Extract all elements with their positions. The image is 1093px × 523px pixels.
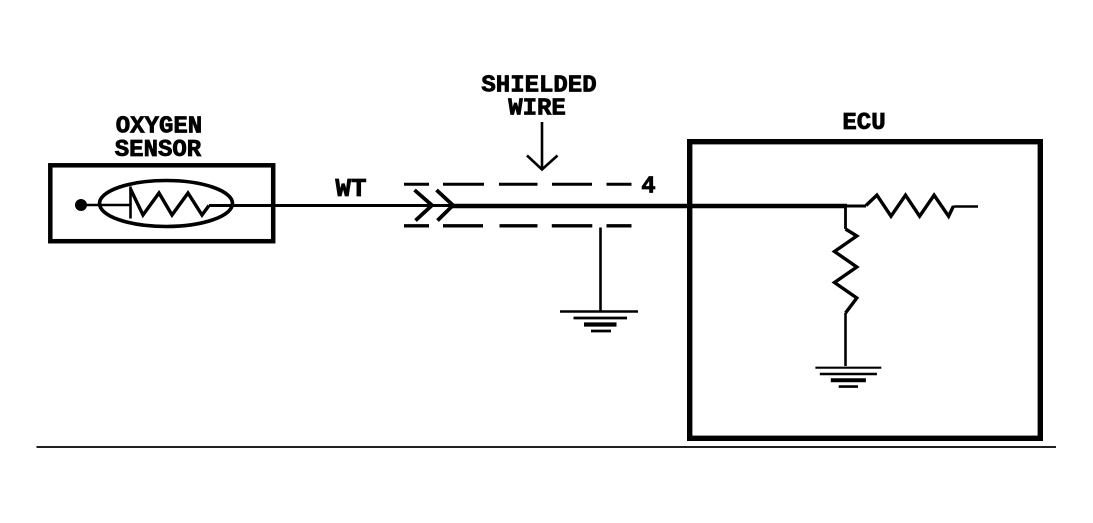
- connector chevron 2: [437, 190, 454, 221]
- sensor resistor zigzag: [131, 189, 210, 215]
- arrow pointing to shield: [527, 122, 558, 170]
- oxygen sensor element ellipse: [100, 181, 233, 227]
- node: sensor terminal dot: [75, 199, 87, 211]
- ECU box: [690, 142, 1041, 439]
- label "OXYGEN SENSOR": [115, 114, 202, 165]
- bottom border line: [37, 446, 1057, 448]
- oxygen sensor box: [50, 165, 273, 241]
- svg-text:4: 4: [641, 174, 655, 201]
- wire: junction to horizontal resistor: [846, 205, 867, 208]
- sensor electrode bar: [129, 187, 132, 219]
- wire: vertical resistor to ground: [844, 313, 847, 366]
- shield top dashed line: [404, 183, 632, 186]
- wire: junction down to vertical resistor: [844, 206, 847, 229]
- svg-text:WT: WT: [335, 174, 366, 204]
- resistor (horizontal, in ECU): [866, 195, 954, 216]
- wire: sensor to connector: [209, 204, 452, 207]
- wire: connector to ECU junction: [452, 204, 847, 209]
- label "SHIELDED WIRE": [481, 73, 596, 123]
- connector chevron 1: [415, 190, 433, 221]
- wire: horizontal resistor tail: [954, 205, 979, 207]
- svg-text:SENSOR: SENSOR: [115, 137, 202, 164]
- svg-text:ECU: ECU: [842, 110, 885, 137]
- shield bottom dashed line: [404, 224, 632, 227]
- resistor (vertical, in ECU): [835, 229, 857, 313]
- wire: shield to ground: [599, 228, 602, 312]
- ground (shield): [560, 312, 638, 332]
- ground (ECU): [815, 368, 881, 387]
- svg-text:WIRE: WIRE: [508, 96, 566, 123]
- wire: dot to sensor element: [86, 204, 131, 207]
